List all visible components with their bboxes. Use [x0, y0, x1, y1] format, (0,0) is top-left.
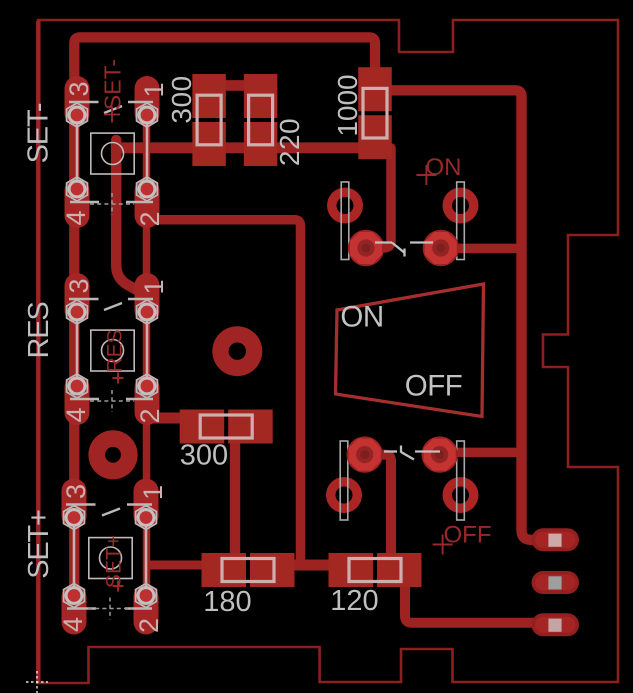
svg-text:300: 300 [180, 440, 228, 472]
svg-text:OFF: OFF [444, 522, 492, 549]
svg-text:1: 1 [138, 485, 168, 500]
svg-text:ON: ON [340, 301, 383, 334]
svg-text:300: 300 [166, 75, 197, 123]
svg-text:180: 180 [203, 586, 251, 618]
svg-text:SET-: SET- [100, 59, 126, 110]
svg-text:OFF: OFF [405, 370, 463, 403]
svg-text:220: 220 [274, 118, 305, 166]
svg-text:4: 4 [61, 407, 91, 422]
svg-text:1: 1 [139, 279, 169, 294]
svg-text:4: 4 [61, 210, 91, 225]
svg-text:RES: RES [23, 302, 55, 359]
svg-text:4: 4 [58, 617, 88, 632]
svg-text:ON: ON [426, 154, 462, 181]
svg-text:3: 3 [61, 484, 91, 499]
svg-text:2: 2 [135, 408, 165, 423]
svg-text:1: 1 [139, 82, 169, 97]
svg-text:SET+: SET+ [23, 510, 55, 579]
svg-text:2: 2 [135, 211, 165, 226]
svg-text:SET+: SET+ [103, 535, 126, 588]
svg-text:SET-: SET- [23, 103, 55, 163]
svg-text:3: 3 [64, 81, 94, 96]
svg-text:RES: RES [104, 329, 127, 372]
svg-text:1000: 1000 [332, 74, 363, 136]
svg-text:120: 120 [330, 585, 378, 617]
svg-text:3: 3 [64, 278, 94, 293]
svg-text:2: 2 [134, 618, 164, 633]
